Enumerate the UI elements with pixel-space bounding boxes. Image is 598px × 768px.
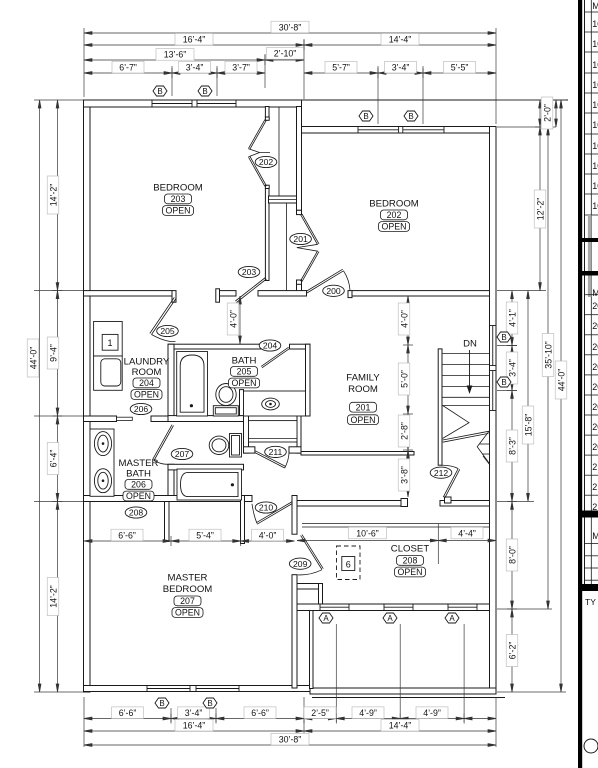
door 205 leaf + arc (150, 297, 176, 334)
schedule section 1 rows (585, 12, 598, 215)
schedule section 2 rows (585, 295, 598, 516)
svg-text:6: 6 (346, 559, 351, 569)
tag window A porch 1 (319, 613, 333, 623)
tag window B bottom 1 (155, 698, 169, 708)
schedule section 3 rows (585, 544, 598, 581)
tag window B top right 1 (359, 111, 373, 121)
svg-text:M: M (592, 288, 598, 298)
svg-text:208: 208 (129, 508, 144, 518)
door 204 leaf (261, 347, 289, 368)
stair winder fan (443, 406, 469, 439)
schedule section 1 texts (592, 1, 598, 211)
svg-text:4’-1”: 4’-1” (507, 309, 517, 327)
sheet border bar (578, 0, 582, 768)
wall: top exterior (left section) (84, 100, 302, 107)
wall: closet divider between hall closets (269, 196, 297, 203)
thick rule 1 (582, 238, 598, 242)
svg-text:15’-8”: 15’-8” (523, 414, 533, 437)
svg-text:12’-2”: 12’-2” (535, 198, 545, 221)
dim bottom 30'-8" (84, 744, 496, 746)
wall: bath 205 east wall (306, 344, 311, 416)
label 3'-4" top (179, 61, 211, 73)
svg-text:10: 10 (592, 201, 598, 211)
tag door 211 (265, 446, 287, 457)
svg-text:ROOM: ROOM (132, 367, 162, 378)
label 8'-3" right (506, 430, 518, 462)
dim left 44'-0" column (39, 100, 41, 692)
label 44'-0" left (27, 339, 39, 377)
svg-text:B: B (501, 333, 506, 342)
label 9'-4" left (47, 337, 59, 369)
svg-text:14’-2”: 14’-2” (48, 184, 58, 207)
label 3'-4" right (506, 352, 518, 384)
svg-text:10: 10 (592, 60, 598, 70)
label 5'-7" top (325, 61, 357, 73)
dim interior corridor 4'-0" left (239, 296, 241, 344)
tag window B top 2 (198, 86, 212, 96)
svg-text:TY: TY (585, 597, 596, 607)
svg-text:203: 203 (242, 267, 257, 277)
tag window A porch 3 (445, 613, 459, 623)
svg-text:B: B (159, 699, 164, 708)
table left border (584, 0, 586, 584)
window: closet south wall triple (320, 604, 477, 611)
svg-text:201: 201 (356, 402, 371, 412)
svg-text:2’-8”: 2’-8” (399, 422, 409, 440)
left extensions (34, 99, 83, 101)
label 6'-7" top (112, 61, 144, 73)
svg-text:209: 209 (293, 559, 308, 569)
wall: bath 205 south / toilet alcove (168, 416, 244, 422)
label 2'-5" bottom (304, 707, 336, 719)
svg-text:20: 20 (592, 402, 598, 412)
svg-text:10: 10 (592, 161, 598, 171)
dim right 35'-10" (547, 127, 549, 609)
tag door 209 (289, 558, 311, 569)
svg-text:207: 207 (180, 596, 195, 606)
label 35'-10" right (542, 334, 554, 377)
svg-text:A: A (323, 614, 329, 623)
svg-text:14’-2”: 14’-2” (48, 585, 58, 608)
svg-text:203: 203 (171, 194, 186, 204)
label 14'-4" top (381, 33, 419, 45)
svg-text:OPEN: OPEN (166, 206, 191, 216)
svg-text:BEDROOM: BEDROOM (153, 183, 203, 194)
bath 205 sink (262, 398, 280, 410)
svg-text:A: A (387, 614, 393, 623)
svg-text:2: 2 (592, 482, 597, 492)
svg-text:6’-2”: 6’-2” (507, 642, 517, 660)
svg-text:5’-5”: 5’-5” (451, 63, 469, 73)
svg-text:4’-0”: 4’-0” (399, 310, 409, 328)
svg-text:ROOM: ROOM (348, 384, 378, 395)
svg-text:4’-9”: 4’-9” (359, 708, 377, 718)
svg-text:3’-4”: 3’-4” (185, 708, 203, 718)
linen closet box (249, 421, 298, 442)
label 14'-2" left lower (47, 578, 59, 616)
window: right wall pair by stairs (492, 326, 494, 366)
svg-text:OPEN: OPEN (398, 567, 423, 577)
svg-text:10: 10 (592, 120, 598, 130)
label 8'-0" right (506, 539, 518, 571)
right extensions (497, 99, 566, 101)
svg-text:211: 211 (269, 447, 283, 457)
svg-text:3’-4”: 3’-4” (392, 63, 410, 73)
svg-text:10: 10 (592, 19, 598, 29)
wall: closet 208 north wall (297, 501, 401, 507)
wall: bottom porch edge (310, 688, 496, 694)
top extensions (83, 28, 85, 97)
label 15'-8" right (522, 406, 534, 444)
wall: closet 208 south wall (297, 604, 490, 611)
table column divider (590, 0, 592, 584)
label 6'-6" bottom 2 (244, 707, 276, 719)
door 202: double leaves opening into bedroom 203 (249, 119, 271, 186)
door 203 leaf (235, 278, 266, 303)
tag door 208 (125, 507, 147, 518)
dim 16'-4"/14'-4" top (84, 44, 496, 46)
label 4'-1" right (506, 302, 518, 334)
label 3'-7" top (225, 61, 257, 73)
schedule section 2 texts (592, 288, 598, 512)
svg-text:LAUNDRY: LAUNDRY (124, 357, 170, 368)
label 5'-0" stairs (398, 363, 410, 395)
svg-text:OPEN: OPEN (382, 222, 407, 232)
dim bottom 16'-4"/14'-4" (84, 730, 496, 732)
wall: laundry south wall (84, 416, 117, 422)
tag door 201 (290, 233, 312, 244)
door 200 leaf + arc (306, 269, 343, 293)
door 201: double leaves opening into bedroom 202 (297, 214, 319, 282)
svg-text:8’-0”: 8’-0” (507, 546, 517, 564)
dim bottom row small (84, 718, 496, 720)
wall: WC south wall (168, 464, 244, 470)
svg-text:30’-8”: 30’-8” (279, 735, 302, 745)
svg-text:35’-10”: 35’-10” (543, 341, 553, 368)
tag window A porch 2 (383, 613, 397, 623)
label 5'-4" master row (189, 529, 221, 541)
svg-text:CLOSET: CLOSET (391, 544, 430, 555)
door 201 jamb blocks (297, 210, 302, 214)
tag door 207 (171, 448, 193, 459)
label 30'-8" bottom (271, 733, 309, 745)
closet rod lower closet (286, 203, 288, 291)
tub bath 205 (177, 352, 208, 417)
dim right 15'-8" (527, 291, 529, 502)
svg-text:4’-9”: 4’-9” (423, 708, 441, 718)
svg-text:2’-10”: 2’-10” (274, 49, 297, 59)
svg-text:20: 20 (592, 422, 598, 432)
svg-text:202: 202 (387, 210, 402, 220)
svg-text:1: 1 (107, 338, 112, 348)
svg-text:16’-4”: 16’-4” (183, 35, 206, 45)
door 210 leaf + arc (256, 502, 292, 524)
master bath vanity (90, 429, 114, 496)
toilet bath 205 (213, 384, 238, 417)
vanity sink 1 (94, 432, 111, 456)
wall: partition right of tub room (241, 496, 245, 544)
svg-text:MASTER: MASTER (168, 573, 208, 584)
door 207 leaf + arc (153, 425, 174, 461)
svg-text:207: 207 (175, 449, 190, 459)
label 10'-6" closet (349, 527, 387, 539)
tag window B top 1 (153, 86, 167, 96)
svg-text:OPEN: OPEN (175, 608, 200, 618)
svg-text:6’-4”: 6’-4” (48, 450, 58, 468)
label 16'-4" bottom (175, 719, 213, 731)
label 2'-0" top right (541, 97, 553, 129)
dim row 6'-7"/3'-4"/3'-7" + 5'-7"/3'-4"/5'-5" (84, 72, 265, 74)
svg-text:44’-0”: 44’-0” (28, 347, 38, 370)
svg-text:B: B (202, 87, 207, 96)
svg-text:20: 20 (592, 382, 598, 392)
dim right 2'-0"/12'-2" (539, 100, 541, 291)
window: top wall right pair (358, 129, 399, 131)
svg-text:3’-7”: 3’-7” (232, 63, 250, 73)
dim interior stairs column (407, 296, 409, 497)
svg-text:44’-0”: 44’-0” (556, 369, 566, 392)
tag window B bottom 2 (203, 698, 217, 708)
wall: master suite south wall (84, 496, 253, 502)
svg-text:OPEN: OPEN (232, 378, 257, 388)
svg-text:10: 10 (592, 39, 598, 49)
label 4'-4" closet (451, 527, 483, 539)
wall: bedroom 203 right wall lower (265, 189, 269, 281)
wall: door 211 stubs (244, 447, 255, 453)
svg-text:3’-4”: 3’-4” (507, 359, 517, 377)
dim left segments column (57, 100, 59, 692)
tub 205 drain (190, 404, 193, 407)
svg-text:B: B (408, 112, 413, 121)
dim 13'-6"/2'-10" top (84, 59, 304, 61)
wall: right exterior (490, 127, 497, 693)
DN arrow (469, 350, 471, 387)
porch slab line (312, 697, 505, 699)
window: top wall left, 3'-4" pair (152, 103, 192, 105)
svg-text:MASTER: MASTER (119, 458, 159, 469)
svg-text:205: 205 (160, 326, 175, 336)
svg-text:4’-0”: 4’-0” (259, 530, 277, 540)
bath 205 vanity counter (244, 391, 306, 416)
wall: bottom exterior (master bedroom) (84, 686, 311, 692)
svg-text:20: 20 (592, 362, 598, 372)
svg-text:M: M (592, 1, 598, 11)
wall: porch left edge (310, 611, 314, 689)
tag door 200 (323, 285, 345, 296)
dim interior master row 6'-6"/5'-4"/4'-0" (84, 540, 295, 542)
label 6'-6" bottom (112, 707, 144, 719)
thick rule 3 (578, 511, 598, 518)
tag door 203 (238, 266, 260, 277)
svg-text:9’-4”: 9’-4” (48, 344, 58, 362)
svg-text:208: 208 (403, 556, 418, 566)
label 4'-0" master row (252, 529, 284, 541)
svg-text:5’-0”: 5’-0” (399, 370, 409, 388)
svg-text:BATH: BATH (232, 356, 257, 367)
door 202 jamb blocks (265, 117, 269, 120)
eave line above right section (302, 99, 569, 101)
thick rule 2 (582, 271, 598, 276)
wall: hall west wall (laundry/master bath east) (168, 344, 174, 420)
svg-text:3’-4”: 3’-4” (186, 63, 204, 73)
tag door 210 (255, 502, 277, 513)
label 4'-9" bottom 2 (416, 707, 448, 719)
label 6'-2" right (506, 635, 518, 667)
svg-text:BEDROOM: BEDROOM (163, 584, 213, 595)
svg-text:30’-8”: 30’-8” (279, 22, 302, 32)
svg-text:13’-6”: 13’-6” (164, 50, 187, 60)
svg-text:210: 210 (259, 503, 274, 513)
wall: bedroom 202 left wall (297, 107, 302, 211)
svg-text:14’-4”: 14’-4” (389, 35, 412, 45)
svg-text:206: 206 (131, 480, 146, 490)
svg-text:204: 204 (263, 341, 278, 351)
svg-text:10: 10 (592, 141, 598, 151)
svg-text:6’-6”: 6’-6” (251, 708, 269, 718)
svg-text:2’-5”: 2’-5” (311, 708, 329, 718)
label 4'-0" corridor (227, 303, 239, 335)
svg-text:20: 20 (592, 442, 598, 452)
svg-text:206: 206 (134, 404, 149, 414)
closet 208 shelf lines (302, 523, 490, 525)
window: bottom wall master bedroom pair (147, 688, 190, 690)
svg-text:4’-4”: 4’-4” (458, 528, 476, 538)
dim right col1 4'-1"/3'-4"/8'-3"/8'-0"/6'-2" (511, 291, 513, 692)
wall: bedroom walls / hall bottom wall y=290.6 (84, 291, 173, 296)
svg-text:20: 20 (592, 301, 598, 311)
label 44'-0" right (555, 361, 567, 399)
wall: master bath closet partition (165, 502, 170, 542)
label 6'-6" master row (111, 529, 143, 541)
wall: top exterior (right section, 2'-0" lower) (297, 127, 497, 134)
dim 30'-8" top (84, 32, 496, 34)
svg-text:FAMILY: FAMILY (346, 373, 380, 384)
svg-text:201: 201 (293, 234, 308, 244)
svg-text:BATH: BATH (126, 469, 151, 480)
svg-text:DN: DN (463, 339, 477, 350)
tag door 202 (255, 156, 277, 167)
gray divider bar (588, 215, 591, 297)
svg-text:5’-7”: 5’-7” (332, 63, 350, 73)
wall: master bedroom east wall (292, 496, 297, 535)
svg-text:B: B (157, 87, 162, 96)
tag door 206 (130, 403, 152, 414)
dim right 44'-0" (560, 100, 562, 692)
wall: WC east wall (297, 416, 301, 454)
svg-text:20: 20 (592, 321, 598, 331)
svg-text:OPEN: OPEN (134, 390, 159, 400)
svg-text:202: 202 (259, 157, 274, 167)
svg-text:3’-8”: 3’-8” (399, 466, 409, 484)
svg-text:B: B (207, 699, 212, 708)
svg-text:212: 212 (434, 468, 449, 478)
svg-text:8’-3”: 8’-3” (507, 437, 517, 455)
stair treads (442, 353, 490, 355)
door 209 leaf + arc (301, 535, 324, 570)
wall: stair west wall (438, 349, 442, 465)
door 212 leaf + arc (443, 469, 460, 498)
label 4'-0" stairs (398, 303, 410, 335)
wall: left exterior (84, 100, 91, 692)
master tub drain (231, 483, 234, 486)
door 211 leaf + arc (255, 451, 286, 468)
svg-text:BEDROOM: BEDROOM (369, 199, 419, 210)
label 2'-8" stairs (398, 415, 410, 447)
svg-text:2’-0”: 2’-0” (542, 104, 552, 122)
svg-text:B: B (501, 378, 506, 387)
svg-text:10: 10 (592, 181, 598, 191)
svg-text:2: 2 (592, 462, 597, 472)
svg-text:205: 205 (237, 367, 252, 377)
pocket door 206 panel (117, 417, 133, 420)
vanity sink 2 (94, 469, 111, 493)
label 3'-4" bottom (178, 707, 210, 719)
dim 2'-0" top right (555, 100, 557, 127)
wall: bedroom 203 right wall upper stub (265, 107, 269, 118)
tag door 204 (259, 340, 281, 351)
label 16'-4" top (175, 33, 213, 45)
tag door 212 (430, 467, 452, 478)
wall: corridor south / bath 205 north (168, 344, 262, 349)
label 14'-4" bottom (381, 719, 419, 731)
tag window B top right 2 (404, 111, 418, 121)
dim closet 10'-6"/4'-4" (297, 540, 496, 542)
label 30'-8" top (271, 21, 309, 33)
detail bubble circle (584, 739, 598, 753)
svg-text:A: A (449, 614, 455, 623)
closet 6 dashed unit (337, 546, 361, 580)
svg-text:16’-4”: 16’-4” (183, 721, 206, 731)
label 12'-2" right (534, 190, 546, 228)
svg-text:10’-6”: 10’-6” (356, 528, 379, 538)
wall: WC right partition (244, 416, 249, 454)
svg-text:204: 204 (139, 378, 154, 388)
label 3'-4" top right (385, 61, 417, 73)
svg-text:OPEN: OPEN (351, 415, 376, 425)
svg-text:OPEN: OPEN (126, 491, 151, 501)
wall: closet 208 niche stubs (297, 584, 322, 590)
svg-text:6’-6”: 6’-6” (118, 530, 136, 540)
tag door 205 (157, 325, 179, 336)
bottom extensions (83, 697, 85, 747)
tag window B right wall 2 (497, 377, 511, 387)
washer / dryer laundry (94, 322, 123, 391)
master tub (177, 469, 242, 500)
toilet WC (209, 434, 241, 458)
label 4'-9" bottom (352, 707, 384, 719)
svg-text:10: 10 (592, 80, 598, 90)
svg-text:6’-6”: 6’-6” (119, 708, 137, 718)
svg-text:M: M (592, 531, 598, 541)
label 13'-6" top (156, 49, 194, 61)
thick rule 4 (578, 584, 598, 591)
svg-text:B: B (363, 112, 368, 121)
wall: under-stair edge wall (301, 452, 414, 456)
svg-text:14’-4”: 14’-4” (389, 721, 412, 731)
svg-text:20: 20 (592, 342, 598, 352)
svg-text:5’-4”: 5’-4” (196, 530, 214, 540)
closet rod upper closet (278, 107, 280, 196)
svg-text:6’-7”: 6’-7” (119, 63, 137, 73)
svg-text:200: 200 (326, 286, 341, 296)
label 14'-2" left upper (47, 176, 59, 214)
svg-text:4’-0”: 4’-0” (228, 310, 238, 328)
tag window B right wall 1 (497, 332, 511, 342)
svg-text:10: 10 (592, 100, 598, 110)
label 2'-10" top (267, 48, 304, 60)
label 6'-4" left (47, 443, 59, 475)
label 5'-5" top (444, 61, 476, 73)
